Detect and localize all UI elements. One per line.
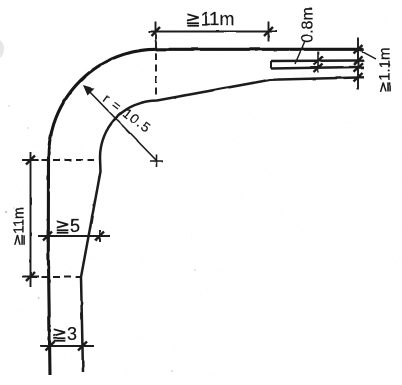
scan speck 5 [171,370,173,372]
left dim top extension tick [22,159,39,161]
top dim left slash [151,27,160,36]
scan speck 3 [38,297,40,299]
centre strip left cap [270,61,272,69]
>=3 left slash [46,342,55,351]
left dim top slash [26,156,35,165]
dashed projection horizontal upper [30,159,98,161]
>=3 dimension line [40,345,94,347]
radius arrow line [84,86,157,161]
>=5 dimension line [38,235,110,237]
top dim left extension tick [155,22,157,42]
1.1m leader line [362,52,376,60]
radius arrowhead [83,85,95,96]
top dim right slash [264,27,273,36]
>=5 right slash [96,232,105,241]
dashed projection horizontal lower [30,276,81,278]
right dimension line [357,38,359,90]
>=5 left stub [47,230,49,242]
scan speck 7 [27,127,29,129]
scan speck 4 [194,269,196,271]
0.8m leader line [295,42,305,64]
right dim tick y67.5 [354,63,365,71]
left dim bottom slash [26,272,35,281]
>=5 left slash [43,232,52,241]
scan smudge left edge [0,40,4,58]
top dim right extension tick [268,22,270,42]
centre strip line lower [271,67,358,69]
right dim tick y49.3 [354,45,365,54]
>=3 right slash [78,342,87,351]
>=5 right stub [99,230,101,242]
top dimension line [148,31,277,33]
radius centre cross [150,155,163,168]
scan speck 6 [8,105,10,107]
right dim tick y60.7 [354,56,365,65]
road outer edge [48,49,363,375]
right dim tick y77.3 [354,73,365,82]
left dim bottom extension tick [22,276,39,278]
dashed projection vertical at tangent [155,42,157,98]
0.8m slash at upper strip line [314,57,323,66]
left dimension line [30,152,32,287]
scan speck 1 [5,211,7,213]
scan speck 2 [13,207,15,209]
0.8m arrow stub [317,52,319,73]
centre strip line upper [271,59,359,62]
0.8m slash at lower strip line [314,64,323,73]
road inner edge [81,78,358,373]
